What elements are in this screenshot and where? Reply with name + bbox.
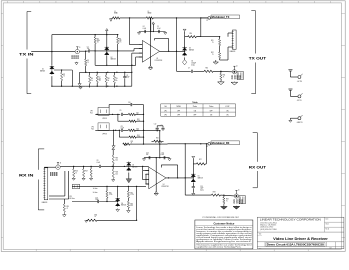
connector J6 RX OUT BNC [234, 190, 246, 204]
svg-text:NONE: NONE [177, 106, 181, 108]
capacitor C2 series input [87, 47, 95, 53]
svg-text:RX OUT: RX OUT [249, 165, 267, 169]
capacitor C5 bypass [157, 26, 161, 33]
supply arrow R19 [112, 148, 115, 156]
supply arrow -5V at D3 [183, 29, 186, 34]
wire RX bypass bus [144, 157, 170, 158]
supply arrow -5V at D5 [192, 156, 195, 160]
ferrite bead FB2 [146, 11, 153, 19]
title block [257, 217, 344, 249]
svg-text:P1: P1 [207, 20, 209, 22]
wire TX IN to network [31, 51, 52, 53]
svg-text:0.1uF: 0.1uF [143, 28, 147, 30]
connector J5 RX BNC jack [44, 162, 61, 175]
svg-text:LINEAR TECHNOLOGY CORPORATION: LINEAR TECHNOLOGY CORPORATION [260, 218, 321, 222]
ground D6 [116, 208, 120, 211]
svg-text:U2: U2 [163, 184, 165, 186]
resistor R19 10k [112, 155, 118, 166]
svg-text:R17: R17 [85, 171, 88, 173]
resistor R14 75 shunt [220, 71, 226, 80]
wire TX output line [177, 71, 233, 72]
svg-text:R11: R11 [211, 40, 214, 42]
label TX OUT [249, 56, 267, 60]
svg-text:1.21k: 1.21k [109, 194, 113, 196]
diode D3 BAT54S [182, 37, 194, 57]
wire +5V rail [120, 17, 208, 18]
svg-text:0.1uF: 0.1uF [97, 162, 101, 164]
ground RX bypass left [142, 158, 145, 161]
resistor R20 10k [112, 166, 118, 178]
net label Modulated_TX [201, 15, 240, 22]
svg-text:C7: C7 [188, 68, 190, 70]
svg-text:1.21k: 1.21k [130, 194, 134, 196]
svg-text:R13: R13 [206, 68, 209, 70]
wire JP3 upper branch [109, 105, 143, 108]
svg-text:R20: R20 [116, 172, 119, 174]
svg-text:Video Line Driver & Receiver: Video Line Driver & Receiver [273, 237, 328, 241]
wire RX gain rail [72, 201, 118, 202]
svg-text:75: 75 [131, 142, 133, 144]
svg-text:LPF IN: LPF IN [102, 134, 107, 136]
svg-text:R27: R27 [199, 159, 202, 161]
ferrite bead FB1 [113, 11, 120, 19]
wire JP4 rail [95, 130, 120, 131]
wire to chassis strip [219, 33, 233, 60]
ground R1 arm [78, 72, 86, 85]
svg-text:C5: C5 [157, 26, 159, 28]
svg-text:D3: D3 [189, 48, 191, 50]
wire gain to op-amp [72, 186, 146, 187]
jumper JP5 [73, 184, 80, 189]
jumper JP3 block [90, 108, 109, 121]
capacitor C16 series [95, 198, 98, 204]
wire TX input mid [94, 44, 134, 52]
svg-text:2x Gain: 2x Gain [93, 192, 98, 194]
wire staircase RX op-amp inputs [142, 166, 149, 184]
resistor R29 75 shunt [223, 195, 229, 203]
jumper JP4 block [91, 123, 109, 136]
svg-text:JP2: JP2 [164, 114, 167, 116]
svg-text:R9: R9 [116, 78, 118, 80]
connector TX OUT bracket [251, 11, 255, 94]
svg-text:10k: 10k [116, 159, 119, 161]
connector J3 chassis strip [230, 30, 237, 53]
svg-text:1.21k: 1.21k [137, 121, 141, 123]
svg-text:Demo Circuit 613A LT6550CS5: Demo Circuit 613A LT6550CS5/7650CS8 [267, 244, 325, 247]
svg-text:R15: R15 [67, 206, 70, 208]
svg-text:0.1uF: 0.1uF [157, 28, 161, 30]
svg-text:JP5: JP5 [69, 196, 72, 198]
label gain options [93, 188, 98, 194]
supply arrow above D2 [106, 29, 109, 35]
wire Modulated_RX branch [206, 143, 207, 164]
svg-text:LPF IN: LPF IN [102, 118, 107, 120]
op-amp U1 LT6552 [139, 40, 162, 62]
ground C15 [192, 193, 195, 196]
resistor R32 [127, 186, 134, 198]
svg-text:(408) 432-1900: (408) 432-1900 [260, 227, 273, 229]
resistor R34 1k feedback [85, 215, 137, 223]
resistor R11 75 [196, 37, 220, 46]
svg-text:C9: C9 [120, 110, 122, 112]
resistor R13 series [204, 68, 213, 73]
svg-text:R14: R14 [223, 75, 226, 77]
net label Modulated_RX [168, 141, 240, 148]
svg-text:10pF: 10pF [126, 77, 129, 79]
resistor R1 [85, 51, 90, 73]
resistor R18 shunt [90, 166, 93, 180]
ground R15 [63, 212, 67, 217]
label RX IN [19, 173, 34, 177]
svg-text:75: 75 [226, 200, 228, 202]
capacitor C7 series [188, 68, 192, 73]
resistor R26 [152, 138, 164, 143]
wire Modulated_RX rail [144, 143, 168, 145]
svg-text:75: 75 [223, 76, 225, 78]
diode D1 BAT54S [40, 65, 54, 75]
terminal +5V jack [288, 70, 302, 83]
capacitor C15 opt [192, 183, 205, 193]
resistor R28 series [211, 192, 220, 197]
ground RX bypass right [168, 158, 171, 161]
ground U2 V- [154, 192, 158, 196]
label D2 BAT54S [111, 57, 116, 61]
svg-text:75: 75 [212, 42, 214, 44]
connector J5 strip [42, 168, 48, 204]
svg-text:R10: R10 [190, 33, 193, 35]
connector RX OUT bracket [253, 133, 258, 188]
wire TX network bottom rail [95, 51, 136, 66]
svg-text:P2: P2 [207, 146, 209, 148]
svg-text:75: 75 [212, 54, 214, 56]
svg-text:10k: 10k [116, 173, 119, 175]
ground TX rail arrow [79, 86, 82, 89]
connector J4 TX OUT BNC [232, 66, 244, 80]
diode D2 BAT54S [105, 35, 109, 56]
capacitor C12b [157, 125, 164, 131]
svg-text:75: 75 [63, 75, 65, 77]
resistor R4 1M [117, 35, 122, 51]
svg-text:75: 75 [136, 114, 138, 116]
resistor R7 [96, 72, 101, 86]
wire supply to bypass bus [159, 130, 160, 158]
ground R33 [127, 208, 131, 212]
svg-text:0.1uF: 0.1uF [121, 127, 125, 129]
svg-text:OFF: OFF [177, 114, 180, 116]
wire TX bottom rail [51, 76, 86, 87]
resistor R15 75 [63, 199, 69, 212]
svg-text:1uF: 1uF [87, 48, 90, 50]
label RX OUT [249, 165, 267, 169]
resistor R30 [106, 186, 113, 201]
svg-text:ON: ON [226, 114, 228, 116]
wire output to diode node [177, 51, 186, 52]
svg-text:C10: C10 [128, 102, 131, 104]
svg-text:C8: C8 [97, 160, 99, 162]
wire U2 feedback loop [161, 165, 177, 178]
resistor R17 shunt [82, 166, 88, 180]
wire RX output line [185, 194, 234, 195]
diode D5 BAT54S [191, 164, 203, 183]
wire U1 feedback loop [154, 39, 168, 52]
ground U1 V- [148, 66, 152, 70]
svg-text:604: 604 [136, 130, 138, 132]
svg-text:Rx1: Rx1 [90, 112, 93, 114]
resistor R25 [123, 141, 144, 146]
wire rail to bypass bus [150, 18, 152, 32]
svg-text:C12: C12 [154, 123, 157, 125]
resistor R24 [119, 130, 143, 138]
capacitor C14 bypass [161, 152, 165, 159]
svg-text:C15: C15 [200, 186, 203, 188]
svg-text:C14: C14 [162, 152, 165, 154]
resistor R16 75 shunt [72, 166, 78, 180]
wire LPF collector vertical [143, 105, 144, 145]
wire U2 supply vertical [155, 158, 157, 192]
svg-text:1.21k: 1.21k [137, 137, 141, 139]
svg-text:RX IN: RX IN [19, 173, 34, 177]
svg-text:604: 604 [130, 205, 132, 207]
svg-text:75: 75 [75, 172, 77, 174]
wire TX network top rail [52, 34, 118, 65]
svg-text:1 of 1: 1 of 1 [329, 247, 333, 249]
wire RX jack pins down [49, 171, 69, 199]
svg-text:R12: R12 [211, 52, 214, 54]
svg-text:75: 75 [67, 208, 69, 210]
resistor R2 [61, 70, 66, 81]
resistor R8 [105, 72, 110, 87]
svg-text:U1: U1 [156, 58, 158, 60]
svg-text:1000pF: 1000pF [191, 62, 196, 64]
svg-text:Modulated_TX: Modulated_TX [212, 16, 230, 19]
wire supply rail right [144, 130, 160, 132]
text LT confidential [202, 216, 239, 219]
resistor R9 [113, 72, 118, 87]
wire output to D5 node [185, 177, 194, 178]
supply arrow -5V below D4 [126, 173, 132, 183]
resistor R10 [185, 33, 201, 38]
ground R14 [218, 81, 225, 85]
connector J1 TX IN bracket [27, 12, 31, 94]
ground chassis [213, 60, 218, 64]
wire bypass bus [139, 31, 165, 32]
analog ground diamond D3 [182, 57, 186, 64]
svg-text:JP3: JP3 [90, 111, 93, 113]
svg-text:R16: R16 [75, 171, 78, 173]
ground R29 [221, 204, 228, 210]
label TX IN [19, 53, 34, 57]
svg-text:R29: R29 [226, 199, 229, 201]
svg-text:C13: C13 [146, 152, 149, 154]
svg-text:1uF: 1uF [146, 154, 149, 156]
supply arrow at bypass bus [152, 22, 155, 32]
wire U2 output node [166, 144, 186, 195]
diode D6 BAT54S [116, 186, 127, 207]
ground RX OUT BNC [233, 206, 240, 209]
svg-text:ON: ON [210, 114, 212, 116]
svg-text:JP4: JP4 [91, 127, 94, 129]
customer notice box [195, 220, 253, 249]
svg-text:C4: C4 [143, 26, 145, 28]
supply arrow rail left end [110, 18, 113, 21]
terminal -5V jack [288, 89, 302, 102]
svg-text:LT6552CS8: LT6552CS8 [161, 186, 169, 188]
label JP RX Gain [69, 196, 74, 200]
resistor R21 [123, 112, 144, 116]
wire U1 supply vertical [150, 18, 152, 66]
wire RX input line [60, 166, 149, 167]
ground bypass left [137, 32, 140, 35]
terminal GND jack [289, 115, 303, 124]
svg-text:OFF: OFF [193, 114, 196, 116]
svg-text:Rx2: Rx2 [91, 128, 94, 130]
svg-text:LOOP: LOOP [225, 106, 229, 108]
svg-text:D4: D4 [132, 165, 134, 167]
resistor R23 [123, 128, 144, 132]
wire JP3 rail [95, 114, 120, 115]
svg-text:Modulated_RX: Modulated_RX [212, 142, 230, 145]
svg-text:OFF: OFF [177, 110, 180, 112]
label C6 option [191, 61, 196, 67]
svg-text:TX IN: TX IN [19, 53, 34, 57]
svg-text:ON: ON [194, 110, 196, 112]
svg-text:LT6552CS8: LT6552CS8 [155, 60, 163, 62]
resistor R3 453k [94, 35, 100, 44]
svg-text:10pF: 10pF [200, 188, 203, 190]
capacitor C10 [128, 102, 132, 106]
svg-text:75: 75 [87, 62, 89, 64]
svg-text:10uF: 10uF [95, 199, 98, 201]
svg-text:75ohm: 75ohm [193, 106, 198, 108]
capacitor C3 [123, 72, 129, 86]
ground bypass right [164, 32, 167, 35]
resistor R33 [127, 198, 133, 208]
op-amp U2 LT6552 [145, 167, 168, 189]
svg-text:OFF: OFF [210, 110, 213, 112]
wire TX feedback lower network [85, 72, 132, 87]
svg-text:JP1: JP1 [164, 110, 167, 112]
svg-text:D1: D1 [42, 69, 44, 71]
wire U1 output node [160, 18, 178, 71]
capacitor C12 [154, 123, 159, 131]
capacitor C11 [121, 126, 125, 132]
svg-text:Customer Notice: Customer Notice [214, 221, 235, 225]
capacitor C13 bypass [146, 152, 150, 159]
svg-text:R26: R26 [156, 138, 159, 140]
wire staircase to op-amp inputs [130, 18, 143, 86]
resistor R12 75 [211, 46, 221, 59]
wire diode node [54, 69, 72, 86]
svg-text:R28: R28 [213, 192, 216, 194]
ground TX OUT BNC [231, 82, 238, 85]
capacitor C4 bypass [143, 26, 147, 33]
svg-text:Size: Size [259, 247, 262, 249]
diode D4 BAT54S [127, 162, 138, 172]
capacitor C9 [120, 110, 123, 116]
wire Modulated_TX branch [200, 18, 202, 37]
svg-text:C6: C6 [191, 61, 193, 63]
svg-text:ON: ON [226, 110, 228, 112]
table jumper settings [161, 102, 236, 117]
svg-text:R19: R19 [116, 158, 119, 160]
ground R20 [112, 178, 115, 182]
resistor R6 [89, 72, 94, 87]
svg-text:-5V TB: -5V TB [297, 100, 302, 102]
svg-text:RX Gain: RX Gain [69, 198, 74, 200]
resistor R22 [118, 114, 144, 122]
connector J2 TX BNC jack [51, 47, 88, 59]
connector RX IN bracket [38, 149, 44, 210]
capacitor C8 series RX [97, 160, 101, 168]
svg-text:Table: Table [192, 102, 198, 104]
svg-text:0.1uF: 0.1uF [161, 154, 165, 156]
svg-text:R8: R8 [108, 78, 110, 80]
svg-text:R6: R6 [91, 78, 93, 80]
ground LPF 1 [112, 130, 115, 148]
svg-text:TX OUT: TX OUT [249, 56, 267, 60]
svg-text:GND TB: GND TB [297, 122, 303, 124]
wire feedback vertical [136, 186, 137, 221]
svg-text:+5V TB: +5V TB [297, 81, 302, 83]
resistor R27 [193, 159, 206, 165]
svg-text:D5: D5 [198, 176, 200, 178]
svg-text:1x Gain: 1x Gain [93, 188, 98, 190]
ground at TX jack [75, 62, 78, 65]
